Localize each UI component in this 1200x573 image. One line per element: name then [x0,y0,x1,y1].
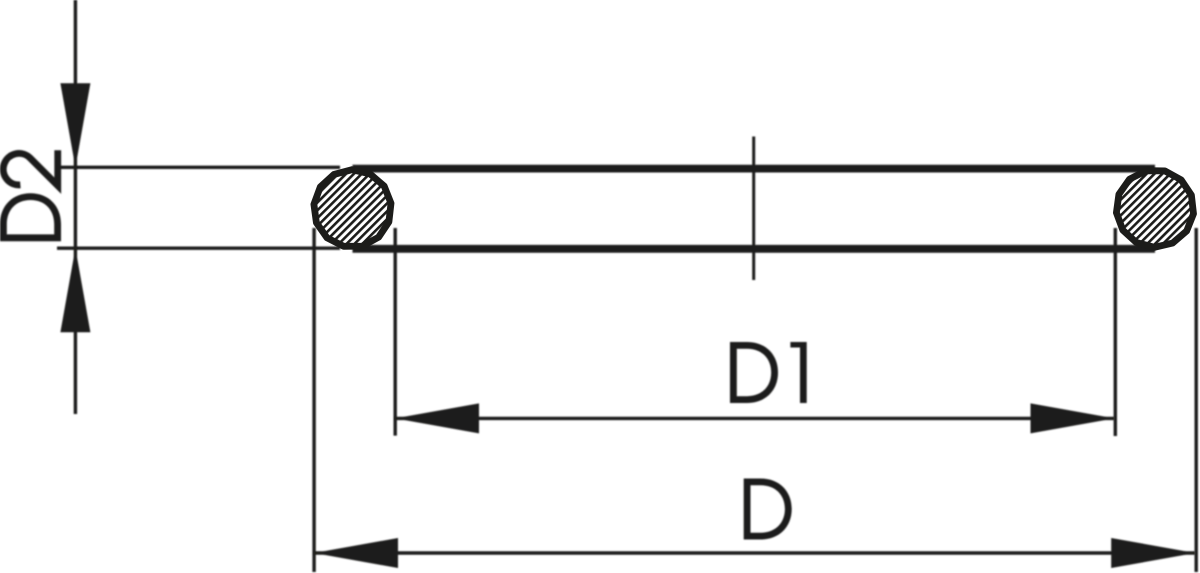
arrow D1 right [1031,403,1115,433]
label D2 (rotated) [0,150,61,241]
extension line D2 top [57,166,340,169]
label D [744,479,792,540]
extension line D1 left [394,228,397,436]
label D1 [730,342,807,403]
dimension line D [314,551,1195,554]
extension line D2 bottom [57,246,340,249]
extension line D left [312,228,315,572]
arrow D2 down [60,83,90,167]
extension line D1 right [1114,228,1117,436]
arrow D1 left [395,403,479,433]
dimension line D2 vertical [74,0,77,414]
o-ring bottom outline band [353,245,1156,253]
o-ring top outline band [353,165,1156,173]
extension line D right [1194,228,1197,572]
dimension line D1 [395,417,1115,420]
arrow D2 up [60,248,90,332]
o-ring cross-section right [1116,171,1193,248]
centerline [752,137,755,281]
o-ring cross-section left [314,170,391,247]
arrow D right [1111,538,1195,568]
arrow D left [314,538,398,568]
